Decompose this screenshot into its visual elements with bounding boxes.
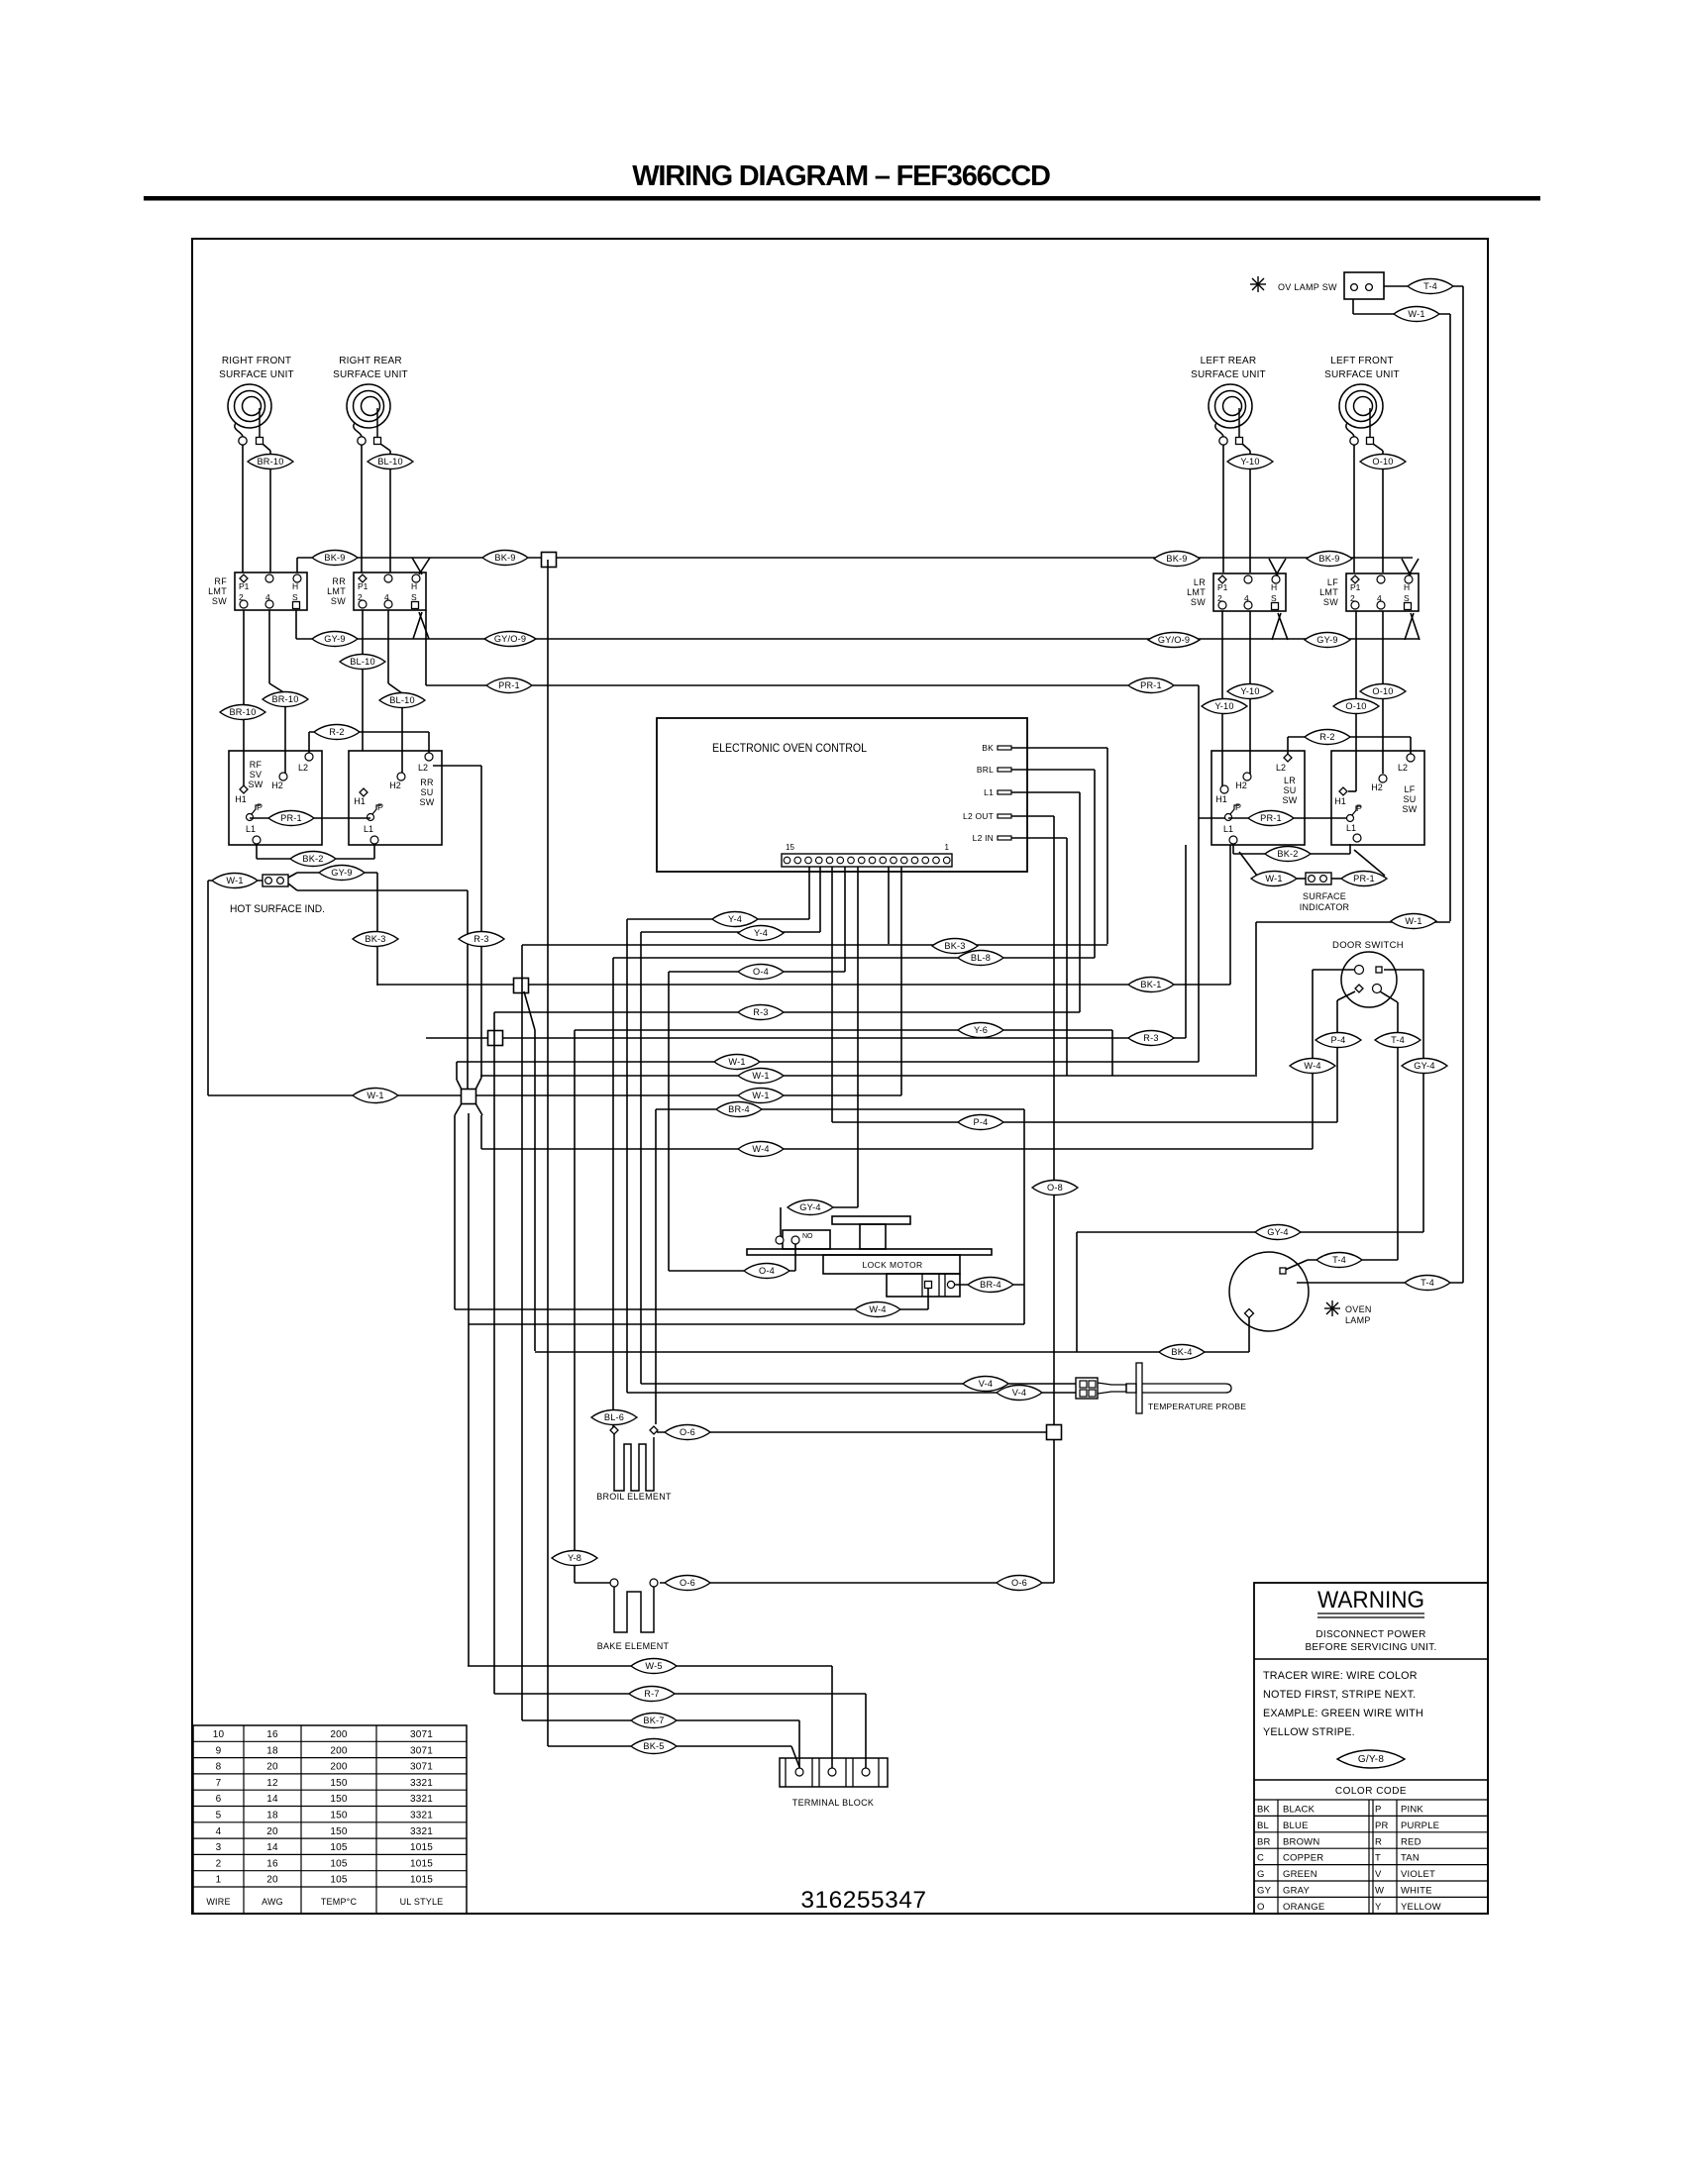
svg-text:SW: SW	[1191, 597, 1206, 607]
svg-text:L2: L2	[298, 763, 308, 773]
svg-text:105: 105	[330, 1875, 348, 1886]
svg-text:EXAMPLE: GREEN WIRE WITH: EXAMPLE: GREEN WIRE WITH	[1263, 1708, 1423, 1719]
svg-text:Y-10: Y-10	[1240, 457, 1259, 467]
svg-text:O-6: O-6	[680, 1427, 695, 1437]
wire label G/Y-8	[1337, 1750, 1405, 1768]
wire BK-4	[535, 1351, 1249, 1353]
wire	[1373, 444, 1383, 451]
wire Y-4 runs	[627, 918, 809, 920]
wire R-7	[494, 1693, 866, 1695]
svg-text:150: 150	[330, 1811, 348, 1821]
svg-text:O-4: O-4	[759, 1266, 775, 1276]
svg-text:LOCK MOTOR: LOCK MOTOR	[863, 1260, 923, 1270]
svg-text:O: O	[1257, 1902, 1265, 1913]
wire GY-9	[297, 872, 377, 874]
verticals mid	[857, 867, 859, 1207]
svg-text:W-1: W-1	[367, 1091, 383, 1100]
svg-text:DISCONNECT POWER: DISCONNECT POWER	[1316, 1629, 1425, 1640]
svg-text:W-1: W-1	[1265, 874, 1282, 884]
svg-text:15: 15	[786, 843, 794, 852]
O-10 label	[1382, 451, 1384, 572]
X crossing at LR H	[1269, 559, 1278, 575]
wire W-1	[1256, 921, 1450, 923]
wire label BK-1	[1128, 978, 1174, 992]
svg-text:BK: BK	[1257, 1805, 1271, 1816]
svg-text:BL-6: BL-6	[604, 1412, 624, 1422]
svg-text:WARNING: WARNING	[1317, 1587, 1424, 1613]
wire label W-4	[855, 1302, 900, 1317]
svg-text:1015: 1015	[410, 1875, 433, 1886]
svg-text:BK-9: BK-9	[324, 553, 345, 563]
wire	[242, 445, 244, 572]
LR SU SW surface switch box	[1211, 751, 1305, 845]
wire BR-4 lock	[955, 1284, 1024, 1286]
svg-text:S: S	[1404, 593, 1410, 603]
svg-text:LR: LR	[1194, 577, 1206, 587]
wire PR-1 bus	[425, 610, 427, 685]
wire label T-4	[1375, 1033, 1421, 1048]
LF LMT SW limit switch box	[1346, 573, 1419, 611]
wire label BL-10	[340, 655, 385, 670]
svg-text:SW: SW	[1402, 804, 1417, 814]
wire label W-1	[1251, 872, 1297, 886]
wire label BR-10	[220, 705, 265, 720]
wire label BK-2	[290, 852, 336, 867]
svg-text:L2 OUT: L2 OUT	[963, 811, 994, 821]
broil element	[614, 1434, 654, 1491]
wire W-1 run b	[480, 1075, 1257, 1077]
wire label T-4	[1316, 1253, 1362, 1268]
svg-text:P-4: P-4	[1331, 1035, 1346, 1045]
svg-text:BK-5: BK-5	[643, 1741, 664, 1751]
svg-text:150: 150	[330, 1826, 348, 1837]
svg-text:LMT: LMT	[1319, 587, 1338, 597]
svg-text:INDICATOR: INDICATOR	[1300, 902, 1350, 912]
svg-text:4: 4	[1377, 593, 1382, 603]
svg-text:TEMPERATURE PROBE: TEMPERATURE PROBE	[1148, 1402, 1246, 1411]
svg-text:SW: SW	[419, 797, 434, 807]
BL-10 label	[389, 451, 391, 572]
wire BK-3 run	[522, 944, 1107, 946]
wire label BK-9	[1154, 552, 1200, 567]
svg-text:2: 2	[216, 1858, 222, 1869]
svg-text:2: 2	[1217, 593, 1222, 603]
wire label W-4	[738, 1142, 784, 1157]
wire label V-4	[997, 1386, 1042, 1401]
coil leads	[1346, 423, 1354, 437]
wire label GY/O-9	[484, 632, 536, 647]
warning box	[1254, 1583, 1488, 1914]
lock motor	[832, 1216, 910, 1224]
svg-text:TAN: TAN	[1401, 1853, 1420, 1864]
wire BK-2 right	[1232, 844, 1234, 854]
svg-text:SU: SU	[1283, 785, 1296, 795]
svg-text:W-4: W-4	[869, 1304, 886, 1314]
svg-text:GY/O-9: GY/O-9	[494, 634, 526, 644]
svg-text:L1: L1	[246, 824, 256, 834]
svg-text:O-10: O-10	[1372, 457, 1393, 467]
svg-text:T: T	[1375, 1853, 1381, 1864]
wire P-4 door	[1337, 991, 1355, 1000]
wire	[361, 445, 363, 572]
svg-text:7: 7	[216, 1778, 222, 1789]
svg-text:R-3: R-3	[474, 934, 488, 944]
svg-text:GRAY: GRAY	[1283, 1886, 1310, 1897]
wire O-4 lock	[669, 1270, 795, 1272]
RIGHT FRONT|SURFACE UNIT terminals	[239, 437, 247, 445]
svg-text:BL-10: BL-10	[377, 457, 403, 467]
svg-text:BR-10: BR-10	[271, 694, 298, 704]
svg-text:T-4: T-4	[1332, 1255, 1346, 1265]
wire label BL-10	[379, 693, 425, 708]
svg-text:BROIL ELEMENT: BROIL ELEMENT	[596, 1492, 672, 1502]
wire label Y-10	[1202, 699, 1247, 714]
svg-text:BK-9: BK-9	[1166, 554, 1187, 564]
svg-text:H2: H2	[271, 780, 283, 790]
svg-text:GY/O-9: GY/O-9	[1158, 635, 1190, 645]
svg-text:RF: RF	[250, 760, 263, 770]
svg-text:5: 5	[216, 1811, 222, 1821]
svg-text:W-1: W-1	[728, 1057, 745, 1067]
LEFT FRONT|SURFACE UNIT coil	[1339, 384, 1383, 428]
wire V-4 b	[627, 1392, 1076, 1394]
svg-text:LF: LF	[1404, 784, 1415, 794]
svg-text:BRL: BRL	[977, 765, 994, 775]
svg-text:2: 2	[1350, 593, 1355, 603]
svg-text:BLACK: BLACK	[1283, 1805, 1316, 1816]
wire	[1242, 444, 1250, 451]
asterisk	[1250, 276, 1266, 292]
wire P-4 run	[832, 1121, 1337, 1123]
wire label R-7	[629, 1687, 675, 1702]
wire label W-1	[738, 1069, 784, 1084]
wire R-3 vertical from RR L2	[433, 765, 481, 767]
wire W-4 lock	[455, 1308, 928, 1310]
wire GY-4 long	[1077, 1231, 1423, 1233]
svg-text:BL: BL	[1257, 1820, 1269, 1831]
oven lamp switch OV LAMP SW	[1344, 272, 1384, 299]
wire label PR-1	[1128, 678, 1174, 693]
svg-text:BROWN: BROWN	[1283, 1836, 1319, 1847]
svg-text:COPPER: COPPER	[1283, 1853, 1323, 1864]
wire L1 pin	[1011, 791, 1080, 793]
wire T-4 lamp right	[1297, 1282, 1463, 1284]
svg-text:BK-2: BK-2	[302, 854, 323, 864]
svg-text:BR-10: BR-10	[229, 707, 256, 717]
wire	[1222, 445, 1224, 572]
LEFT REAR|SURFACE UNIT coil	[1209, 384, 1252, 428]
svg-text:L1: L1	[984, 787, 994, 797]
wire label O-6	[997, 1576, 1042, 1591]
svg-text:W-1: W-1	[752, 1071, 769, 1081]
wire label Y-6	[958, 1023, 1003, 1038]
junction	[657, 1431, 1054, 1433]
svg-text:GY-4: GY-4	[1414, 1061, 1434, 1071]
svg-text:W-4: W-4	[752, 1144, 769, 1154]
svg-text:T-4: T-4	[1421, 1278, 1434, 1288]
svg-text:R-2: R-2	[1319, 732, 1334, 742]
svg-text:10: 10	[213, 1729, 225, 1740]
svg-text:BR-4: BR-4	[728, 1104, 750, 1114]
wire label W-1	[1394, 307, 1439, 322]
svg-text:S: S	[411, 592, 417, 602]
wire label T-4	[1405, 1276, 1450, 1291]
svg-text:GY-9: GY-9	[324, 634, 345, 644]
wire label BK-9	[482, 551, 528, 566]
svg-text:BK-4: BK-4	[1171, 1347, 1192, 1357]
wire BK pin	[1011, 747, 1107, 749]
X crossing at LR S	[1272, 613, 1281, 640]
wire GY-9 / GY/O-9 bus	[296, 638, 1420, 640]
svg-text:L1: L1	[1223, 824, 1233, 834]
wire BK-5	[548, 1745, 791, 1747]
svg-text:18: 18	[266, 1811, 278, 1821]
svg-text:3071: 3071	[410, 1762, 433, 1773]
svg-text:P-4: P-4	[974, 1117, 989, 1127]
wire label W-5	[631, 1659, 677, 1674]
svg-text:WHITE: WHITE	[1401, 1886, 1432, 1897]
wire label W-1	[212, 874, 258, 888]
svg-text:V-4: V-4	[1012, 1388, 1026, 1398]
X crossing at RR H	[412, 558, 422, 574]
BR-10 label	[269, 451, 271, 572]
wire label PR-1	[1248, 811, 1294, 826]
wire label O-10	[1333, 699, 1379, 714]
svg-text:9: 9	[216, 1745, 222, 1756]
svg-text:PR-1: PR-1	[498, 680, 520, 690]
svg-text:LF: LF	[1327, 577, 1338, 587]
wire label R-2	[314, 725, 360, 740]
svg-text:TRACER WIRE: WIRE COLOR: TRACER WIRE: WIRE COLOR	[1263, 1670, 1418, 1682]
svg-text:G/Y-8: G/Y-8	[1358, 1754, 1384, 1765]
wire label BK-3	[932, 939, 978, 954]
wire R-2 left	[309, 731, 429, 733]
wire label P-4	[1316, 1033, 1361, 1048]
svg-text:200: 200	[330, 1745, 348, 1756]
svg-text:105: 105	[330, 1842, 348, 1853]
wire label O-4	[738, 965, 784, 980]
wire label BK-4	[1159, 1345, 1205, 1360]
svg-text:1015: 1015	[410, 1858, 433, 1869]
svg-text:O-10: O-10	[1372, 686, 1393, 696]
svg-text:O-6: O-6	[1011, 1578, 1027, 1588]
wire BK-7	[522, 1719, 799, 1721]
svg-text:GY: GY	[1257, 1886, 1272, 1897]
wire label GY-4	[788, 1200, 833, 1215]
svg-text:BL-8: BL-8	[971, 953, 991, 963]
wire label BK-9	[1307, 552, 1352, 567]
svg-text:3321: 3321	[410, 1778, 433, 1789]
connector strip	[782, 854, 952, 867]
wire label BL-8	[958, 951, 1003, 966]
wire label GY-9	[312, 632, 358, 647]
svg-text:LMT: LMT	[208, 586, 227, 596]
wire label GY-4	[1255, 1225, 1301, 1240]
wire label PR-1	[268, 811, 314, 826]
wire label BK-2	[1265, 847, 1311, 862]
svg-text:R: R	[1375, 1836, 1382, 1847]
svg-text:W: W	[1375, 1886, 1384, 1897]
svg-text:12: 12	[266, 1778, 278, 1789]
wire PR-1 RF-RR	[250, 817, 370, 819]
svg-text:SW: SW	[1282, 795, 1297, 805]
svg-text:S: S	[292, 592, 298, 602]
svg-text:P: P	[1375, 1805, 1382, 1816]
svg-text:BL-10: BL-10	[389, 695, 415, 705]
wire label W-1	[353, 1089, 398, 1103]
wire label R-3	[459, 932, 504, 947]
svg-text:W-1: W-1	[226, 876, 243, 885]
svg-text:AWG: AWG	[262, 1897, 283, 1907]
svg-text:LMT: LMT	[1187, 587, 1206, 597]
svg-text:20: 20	[266, 1875, 278, 1886]
svg-text:P1: P1	[239, 581, 250, 591]
wire L2 OUT pin	[1011, 815, 1054, 817]
svg-text:Y-8: Y-8	[568, 1553, 581, 1563]
svg-text:3321: 3321	[410, 1811, 433, 1821]
wire	[380, 444, 390, 451]
svg-text:L1: L1	[364, 824, 373, 834]
svg-text:R-7: R-7	[644, 1689, 659, 1699]
svg-text:GREEN: GREEN	[1283, 1869, 1317, 1880]
wire W-1 left loop	[208, 880, 263, 882]
svg-text:LEFT REAR: LEFT REAR	[1201, 356, 1257, 366]
svg-text:R-3: R-3	[753, 1007, 768, 1017]
svg-text:20: 20	[266, 1762, 278, 1773]
wire V-4 a	[641, 1383, 1076, 1385]
svg-text:316255347: 316255347	[800, 1887, 926, 1914]
svg-text:L2: L2	[1276, 763, 1286, 773]
svg-text:YELLOW: YELLOW	[1401, 1902, 1441, 1913]
svg-text:SURFACE: SURFACE	[1303, 891, 1346, 901]
svg-text:PR-1: PR-1	[1353, 874, 1375, 884]
hot surface indicator	[263, 875, 288, 886]
svg-text:SURFACE UNIT: SURFACE UNIT	[1191, 369, 1266, 380]
svg-text:BK: BK	[982, 743, 994, 753]
wire run	[426, 1037, 1186, 1039]
svg-text:SURFACE UNIT: SURFACE UNIT	[219, 369, 294, 380]
svg-text:GY-9: GY-9	[1316, 635, 1337, 645]
X crossing at RR S	[413, 612, 422, 639]
wire BL-10 drops	[362, 610, 364, 751]
svg-text:T-4: T-4	[1423, 281, 1437, 291]
wire label PR-1	[1341, 872, 1387, 886]
verticals right	[1185, 845, 1187, 1038]
temperature probe	[1076, 1378, 1098, 1399]
X crossing at LF H	[1402, 559, 1411, 575]
svg-text:GY-4: GY-4	[799, 1202, 820, 1212]
wire W-1 run a	[457, 1061, 1199, 1063]
svg-text:LAMP: LAMP	[1345, 1315, 1371, 1325]
svg-text:H: H	[411, 581, 417, 591]
svg-text:COLOR CODE: COLOR CODE	[1335, 1786, 1407, 1797]
wire BK-2 left	[256, 844, 258, 859]
svg-text:BK-3: BK-3	[944, 941, 965, 951]
RIGHT REAR|SURFACE UNIT coil	[347, 384, 390, 428]
svg-text:8: 8	[216, 1762, 222, 1773]
wire label O-4	[744, 1264, 789, 1279]
svg-text:BL-10: BL-10	[350, 657, 375, 667]
svg-text:1: 1	[945, 843, 950, 852]
coil leads	[1215, 423, 1223, 437]
wire label Y-10	[1227, 455, 1273, 469]
svg-text:Y-4: Y-4	[754, 928, 768, 938]
X junction	[455, 1103, 462, 1115]
svg-text:1015: 1015	[410, 1842, 433, 1853]
svg-text:LR: LR	[1284, 776, 1296, 785]
wire W-5	[468, 1665, 832, 1667]
svg-text:20: 20	[266, 1826, 278, 1837]
wire BL-8 run	[613, 957, 1095, 959]
svg-text:Y-6: Y-6	[974, 1025, 988, 1035]
svg-text:4: 4	[1244, 593, 1249, 603]
svg-text:ORANGE: ORANGE	[1283, 1902, 1324, 1913]
coil leads	[235, 423, 243, 437]
svg-text:PR-1: PR-1	[1260, 813, 1282, 823]
svg-text:4: 4	[216, 1826, 222, 1837]
wire label R-3	[1128, 1031, 1174, 1046]
wire label R-3	[738, 1005, 784, 1020]
svg-text:L2: L2	[1398, 763, 1408, 773]
RF LMT SW limit switch box	[235, 572, 307, 610]
wire GY-4 door	[1384, 969, 1423, 971]
svg-text:PR-1: PR-1	[280, 813, 302, 823]
svg-text:BAKE ELEMENT: BAKE ELEMENT	[597, 1641, 670, 1651]
svg-text:SURFACE UNIT: SURFACE UNIT	[333, 369, 408, 380]
svg-text:H: H	[1271, 582, 1277, 592]
wire BR-10 drops	[243, 610, 245, 789]
svg-text:P1: P1	[358, 581, 368, 591]
wire label T-4	[1408, 279, 1453, 294]
svg-text:S: S	[1271, 593, 1277, 603]
asterisk	[1324, 1300, 1340, 1316]
wire label R-2	[1305, 730, 1350, 745]
oven lamp	[1229, 1252, 1309, 1331]
RR SU SW surface switch box	[349, 751, 442, 845]
svg-text:NOTED FIRST, STRIPE NEXT.: NOTED FIRST, STRIPE NEXT.	[1263, 1689, 1416, 1701]
color code table	[1254, 1799, 1488, 1801]
svg-text:RED: RED	[1401, 1836, 1421, 1847]
svg-text:OV LAMP SW: OV LAMP SW	[1278, 282, 1337, 292]
svg-text:G: G	[1257, 1869, 1265, 1880]
svg-text:H1: H1	[1334, 796, 1346, 806]
svg-text:RR: RR	[420, 778, 434, 787]
svg-text:14: 14	[266, 1794, 278, 1805]
svg-text:BK-7: BK-7	[643, 1716, 664, 1725]
svg-text:O-10: O-10	[1345, 701, 1366, 711]
svg-text:SV: SV	[250, 770, 263, 780]
svg-text:SW: SW	[331, 596, 346, 606]
wire W-4 door	[1313, 969, 1354, 971]
svg-text:L2: L2	[418, 763, 428, 773]
svg-text:O-6: O-6	[680, 1578, 695, 1588]
wire label Y-10	[1227, 684, 1273, 699]
svg-text:L2 IN: L2 IN	[973, 833, 994, 843]
X crossing at LF S	[1405, 613, 1414, 640]
svg-text:200: 200	[330, 1762, 348, 1773]
RR LMT SW limit switch box	[354, 572, 426, 610]
svg-text:YELLOW STRIPE.: YELLOW STRIPE.	[1263, 1726, 1355, 1738]
svg-text:SURFACE UNIT: SURFACE UNIT	[1324, 369, 1400, 380]
svg-text:GY-9: GY-9	[331, 868, 352, 878]
RIGHT FRONT|SURFACE UNIT coil	[228, 384, 271, 428]
svg-text:Y-10: Y-10	[1214, 701, 1233, 711]
wire Y-6 run	[575, 1029, 1112, 1031]
wire	[297, 889, 468, 891]
wire L1 run	[494, 1011, 1080, 1013]
wire Y-8	[575, 1582, 610, 1584]
svg-text:BK-9: BK-9	[494, 553, 515, 563]
